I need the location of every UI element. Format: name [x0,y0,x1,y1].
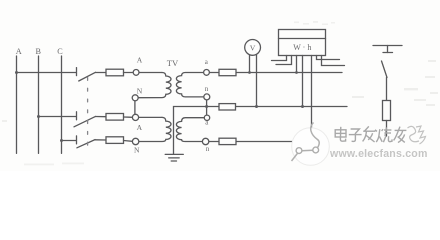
wire FU1 to terminal A1 [124,72,134,74]
junction V left lead on row a1 [248,71,251,74]
watermark character fa [363,126,376,142]
wire blade to fuse FU7 [386,78,388,101]
svg-text:www.elecfans.com: www.elecfans.com [329,148,428,160]
svg-text:a: a [205,58,209,66]
wire secondary row a1 [209,72,342,74]
fuse FU4 row a1 [219,69,236,75]
bus B [38,56,40,153]
ground [165,154,183,161]
watt-hour meter box [279,30,326,56]
svg-text:C: C [57,47,63,56]
PT TV1 primary winding [138,73,171,98]
junction lead3 row a1 [295,71,298,74]
PT TV1 secondary winding [176,73,204,97]
watermark bird body line [302,149,313,152]
terminal circle n2 [202,138,208,144]
junction link-neutral [205,105,208,108]
watt-hour meter terminal hook 1 [272,56,287,61]
watermark character shao [375,127,392,142]
wire QS1 to FU1 [96,72,107,74]
terminal circle A1 [133,70,139,76]
wire terminal A2 to TV2 primary [139,116,162,118]
interlock dashed link [87,78,89,148]
wire FU2 to terminal A2 [124,116,133,118]
junction lead4 neutral row [301,105,304,108]
switch QS1 blade [79,72,96,81]
terminal circle N1 [132,95,138,101]
wire QS2 to FU2 [96,116,107,118]
fuse FU7 [383,101,391,121]
svg-text:W · h: W · h [293,43,311,52]
watt-hour meter terminal lead 3 [296,56,298,73]
scan speckle noise [2,21,438,165]
watermark character zi [349,129,362,141]
svg-text:TV: TV [167,58,179,68]
switch QS3 blade [77,140,95,148]
wire FU3 to terminal N2 [124,140,133,143]
PT TV2 primary winding [139,117,171,141]
wire branch3 from bus C [62,140,77,142]
wire QS3 to FU3 [95,139,106,141]
watt-hour meter terminal hook 6 [317,56,340,60]
fuse FU2 [106,114,124,121]
switch QS2 blade [74,116,96,126]
wire terminal A1 to TV1 primary [139,72,162,74]
PT TV2 secondary winding [176,118,204,142]
wire secondary neutral row with ground riser [174,107,348,155]
watt-hour meter terminal hook 2 [276,56,292,65]
fuse FU3 [106,137,124,144]
wire below FU7 [386,121,388,137]
junction bus C branch3 [60,139,63,142]
svg-text:N: N [134,146,140,155]
fuse FU1 [106,69,124,76]
watt-hour meter terminal hook 7 [322,56,345,66]
fuse FU5 neutral row [219,104,236,110]
watermark bird eye 2 [313,147,319,153]
voltmeter V body [245,40,261,56]
switch QS2 fixed contact [76,112,78,120]
watermark bird neck [311,123,319,150]
terminal circle n1 [204,94,210,100]
switch QS3 fixed contact [76,136,78,144]
watt-hour meter terminal lead 5 [311,56,313,142]
svg-text:V: V [250,43,256,52]
fuse FU6 row n2 [219,138,236,144]
wire branch2 from bus B [39,116,77,118]
watermark character you [394,127,407,143]
wire secondary row n2 [209,141,292,143]
terminal circle a1 [204,70,210,76]
junction bus B branch2 [37,115,40,118]
svg-text:A: A [137,55,143,64]
terminal circle a2 [204,115,209,120]
junction V right lead on neutral row [255,105,258,108]
watt-hour meter terminal lead 4 [302,56,304,107]
wire branch1 from bus A [17,72,77,74]
svg-text:n: n [206,145,210,153]
watermark bird wing [292,152,299,162]
switch QS1 fixed contact [76,68,78,76]
disconnector blade [382,61,388,78]
watermark logo circle [292,123,330,166]
junction bus A branch1 [15,71,18,74]
disconnector contact tick [383,52,393,54]
svg-text:A: A [16,47,22,56]
terminal circle N2 [132,138,138,144]
svg-text:n: n [205,85,209,93]
disconnector bar [373,45,402,47]
wire link N1 to A2 primary side [134,101,136,115]
terminal circle A2 [132,114,138,120]
disconnector stub [387,46,389,53]
watermark stamp squiggle [408,126,426,144]
svg-text:N: N [137,87,143,96]
svg-text:A: A [137,123,143,132]
watermark character dian [335,127,346,141]
watermark bird eye 1 [296,148,302,154]
bus A [16,56,18,153]
wire link n1 to a2 [206,100,208,115]
svg-text:B: B [35,47,41,56]
voltmeter V leads [250,55,257,106]
bus C [61,56,63,153]
